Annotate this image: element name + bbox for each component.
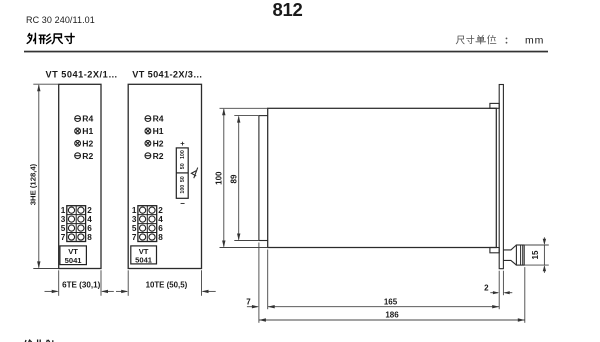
LED H1 (panel1)	[75, 128, 81, 134]
dimension 165 label	[384, 297, 398, 306]
svg-text:3HE (128,4): 3HE (128,4)	[28, 163, 37, 205]
svg-text:4: 4	[158, 215, 163, 224]
svg-text:7: 7	[132, 233, 137, 242]
dimension 89 label	[229, 174, 238, 183]
尺	[456, 36, 464, 44]
svg-text:6: 6	[158, 224, 163, 233]
connector grid panel2	[138, 206, 157, 242]
形	[39, 34, 51, 43]
dimension 100 extension lines	[220, 108, 268, 247]
svg-text:−: −	[180, 199, 185, 208]
LED R2 (panel2)	[145, 153, 151, 159]
svg-text:+: +	[180, 139, 185, 148]
svg-text:100: 100	[215, 171, 224, 185]
section title 外形尺寸 (drawn strokes)	[27, 33, 74, 43]
svg-text:RC 30 240/11.01: RC 30 240/11.01	[26, 15, 95, 25]
knob	[503, 245, 524, 265]
svg-text:VT 5041-2X/1…: VT 5041-2X/1…	[46, 69, 118, 79]
svg-text:8: 8	[158, 233, 163, 242]
dimension 89 extension lines	[234, 116, 259, 241]
svg-text:1: 1	[61, 206, 66, 215]
svg-text:7: 7	[246, 297, 251, 306]
dimension 186 label	[385, 310, 399, 319]
dimension 15 extension lines	[525, 245, 549, 265]
svg-text:812: 812	[273, 0, 303, 20]
svg-text:15: 15	[531, 250, 540, 259]
pin numbers panel2	[132, 206, 163, 242]
位	[488, 35, 496, 44]
dimension 10TE arrows	[116, 290, 216, 293]
svg-text:3: 3	[132, 215, 137, 224]
potentiometer minus sign	[180, 199, 185, 208]
LED H2 (panel2)	[145, 140, 151, 146]
svg-text:3: 3	[61, 215, 66, 224]
LED R4 (panel1)	[75, 116, 81, 122]
svg-text:5041: 5041	[135, 256, 153, 265]
mounting block bottom	[490, 248, 499, 253]
svg-text:6: 6	[87, 224, 92, 233]
svg-text:186: 186	[385, 310, 399, 319]
dimension 7 label	[246, 297, 251, 306]
svg-text:5: 5	[132, 224, 137, 233]
VT 5041 label box panel2	[131, 246, 157, 265]
svg-text:mm: mm	[525, 35, 544, 47]
svg-text:H2: H2	[82, 138, 93, 148]
svg-text:89: 89	[229, 174, 238, 183]
potentiometer scale texts	[180, 150, 186, 193]
svg-text:VT: VT	[68, 247, 78, 256]
dimension 15 label	[531, 250, 540, 259]
svg-text:100: 100	[180, 150, 186, 159]
svg-text:6TE (30,1): 6TE (30,1)	[62, 281, 101, 290]
svg-text:7: 7	[61, 233, 66, 242]
寸	[467, 35, 474, 43]
dimension 10TE label	[146, 281, 188, 290]
svg-text:H2: H2	[153, 138, 164, 148]
LED R4 (panel2)	[145, 116, 151, 122]
potentiometer wiper arrow	[191, 168, 197, 179]
title VT 5041-2X/3	[132, 69, 202, 79]
card body	[268, 108, 497, 247]
dimension 2 label	[484, 283, 489, 292]
LED R2 (panel1)	[75, 153, 81, 159]
svg-text:1: 1	[132, 206, 137, 215]
外	[27, 33, 35, 43]
svg-text:50: 50	[180, 176, 186, 182]
header doc number	[26, 15, 95, 25]
svg-text:R2: R2	[153, 151, 164, 161]
rear connector strip	[259, 116, 268, 241]
dimension 7 arrows	[247, 305, 259, 308]
svg-text:5: 5	[61, 224, 66, 233]
LED H2 (panel1)	[75, 140, 81, 146]
dimension 89 line with arrows	[237, 116, 240, 241]
svg-text:10TE (50,5): 10TE (50,5)	[146, 281, 188, 290]
svg-text:5041: 5041	[65, 256, 83, 265]
dimension 186 line with arrows	[259, 318, 525, 321]
dimension 3HE extension top	[33, 83, 58, 85]
dimension 100 label	[215, 171, 224, 185]
svg-text:VT 5041-2X/3…: VT 5041-2X/3…	[132, 69, 202, 79]
svg-text:H1: H1	[153, 126, 164, 136]
potentiometer scale body	[176, 148, 188, 198]
bottom cut-off heading strokes	[25, 340, 53, 342]
svg-text:8: 8	[87, 233, 92, 242]
dimension 3HE label	[28, 163, 37, 205]
svg-text:2: 2	[158, 206, 163, 215]
dimension 3HE line with arrows	[37, 84, 40, 268]
：	[506, 38, 508, 42]
svg-text:165: 165	[384, 297, 398, 306]
units label 尺寸单位： (drawn strokes)	[456, 35, 506, 44]
title VT 5041-2X/1	[46, 69, 118, 79]
尺	[52, 34, 62, 44]
dimension 6TE arrows	[45, 290, 114, 293]
dimension 165 line with arrows	[268, 305, 500, 308]
svg-text:4: 4	[87, 215, 92, 224]
svg-text:2: 2	[87, 206, 92, 215]
mounting block top	[490, 103, 499, 108]
LED H1 (panel2)	[145, 128, 151, 134]
pin numbers panel1	[61, 206, 92, 242]
vertical extension lines below side view	[259, 243, 525, 323]
svg-text:50: 50	[180, 163, 186, 169]
单	[476, 35, 486, 44]
dimension 10TE extension lines	[128, 270, 201, 296]
svg-text:R4: R4	[82, 114, 93, 124]
svg-text:R2: R2	[82, 151, 93, 161]
svg-text:100: 100	[180, 185, 186, 194]
dimension 15 line with arrows	[543, 237, 546, 273]
dimension 6TE label	[62, 281, 101, 290]
dimension 6TE extension lines	[59, 270, 101, 296]
page number 812	[273, 0, 303, 20]
header rule	[24, 51, 548, 53]
potentiometer plus sign	[180, 139, 185, 148]
VT 5041 label box panel1	[60, 246, 87, 265]
svg-text:H1: H1	[82, 126, 93, 136]
dimension 3HE extension bottom	[33, 268, 58, 270]
dimension 2 arrows	[490, 291, 512, 294]
front panel plate	[499, 85, 503, 269]
寸	[65, 33, 74, 43]
svg-text:R4: R4	[153, 114, 164, 124]
dimension 100 line with arrows	[222, 108, 225, 247]
panel 2 outline	[128, 84, 201, 268]
panel 1 outline	[59, 84, 101, 268]
svg-text:2: 2	[484, 283, 489, 292]
units value mm	[525, 35, 544, 47]
connector grid panel1	[67, 206, 86, 242]
